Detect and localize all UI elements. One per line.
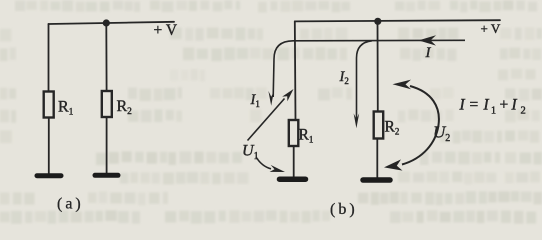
svg-text:I: I [425, 45, 432, 61]
ground (b) left [280, 176, 306, 182]
wire: circuit (b) R1 branch top vertical [294, 21, 297, 120]
svg-text:+ V: + V [154, 22, 178, 39]
ground (a) left [37, 173, 61, 178]
wire: circuit (a) top supply rail [49, 22, 175, 24]
arrow: voltage U1 upper pointer toward top of R1 branch [248, 99, 285, 141]
wire: circuit (b) top supply rail [295, 20, 500, 21]
node: junction dot circuit (b) [374, 18, 381, 25]
ground (a) right [95, 173, 118, 178]
wire: circuit (b) R2 branch top vertical [377, 21, 379, 112]
svg-text:(a): (a) [57, 196, 84, 213]
wire: current-path annotation line with I arrow, curving down to I1 [273, 40, 465, 97]
wire: circuit (a) R1 branch top vertical [48, 24, 50, 92]
resistor R2 (b) body [374, 112, 384, 139]
wire: circuit (b) R1 bottom to ground [293, 146, 295, 177]
arrowhead: total current I pointing left [419, 35, 437, 45]
arrowhead: branch current I2 pointing down [354, 113, 360, 128]
arrow: voltage U1 lower pointer toward ground of R1 branch [256, 157, 271, 169]
ground (b) right [363, 177, 390, 183]
resistor R1 (b) body [289, 120, 299, 146]
wire: circuit (a) R1 bottom to ground [48, 118, 50, 174]
wire: circuit (b) R2 bottom to ground [376, 139, 378, 178]
arrow: voltage U2 arc spanning R2 branch [402, 86, 439, 165]
node: junction dot circuit (a) [103, 19, 110, 26]
resistor R2 (a) body [102, 91, 112, 117]
arrowhead: branch current I1 pointing down [268, 91, 274, 106]
svg-text:+ V: + V [481, 21, 501, 36]
wire: circuit (a) R2 bottom to ground [106, 117, 108, 174]
resistor R1 (a) body [44, 92, 54, 118]
wire: circuit (a) R2 branch top vertical [105, 23, 107, 91]
svg-text:(b): (b) [330, 201, 358, 218]
wire: I2 branch current path curve [357, 41, 373, 120]
